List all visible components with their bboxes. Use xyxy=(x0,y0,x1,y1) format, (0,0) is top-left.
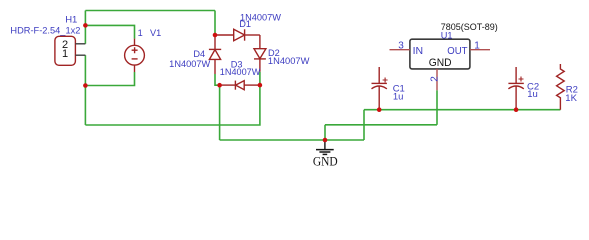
svg-text:HDR-F-2.54_1x2: HDR-F-2.54_1x2 xyxy=(10,25,80,35)
resistor R2 xyxy=(557,64,565,110)
svg-text:1K: 1K xyxy=(565,93,577,104)
V1 pin 1 line xyxy=(134,39,136,46)
C2 top plate xyxy=(508,82,523,84)
svg-text:1N4007W: 1N4007W xyxy=(268,56,310,66)
svg-text:GND: GND xyxy=(429,57,452,69)
wire ground rail riser to C1 rail xyxy=(363,110,365,140)
svg-text:U1: U1 xyxy=(441,30,453,40)
svg-text:D4: D4 xyxy=(193,49,205,59)
junction C1 negative node xyxy=(377,107,382,112)
R2 zigzag body and pins xyxy=(557,64,565,110)
U1 body xyxy=(410,39,470,69)
junction bridge node BR xyxy=(258,83,263,88)
D1 cathode bar xyxy=(244,29,246,40)
D4 anode pin xyxy=(214,59,216,74)
junction C2 negative node xyxy=(514,107,519,112)
wire gnd node to U1 pin 2 xyxy=(325,124,437,126)
D1 anode pin xyxy=(215,34,234,36)
C1 plus mark xyxy=(383,78,388,83)
diode D3 xyxy=(220,81,260,90)
wire D4 anode to bridge node BL xyxy=(215,74,220,85)
junction gnd node xyxy=(323,138,328,143)
D2 triangle xyxy=(254,49,266,59)
ground bar 2 xyxy=(319,151,330,153)
wire top rail drop to bridge node TL xyxy=(214,11,216,36)
ground xyxy=(316,140,334,154)
svg-text:1: 1 xyxy=(138,28,143,38)
D4 triangle xyxy=(209,50,220,60)
junction bridge node TL xyxy=(213,33,218,38)
V1 pin 2 line xyxy=(134,65,136,72)
source V1 xyxy=(125,39,145,72)
D2 cathode pin xyxy=(259,59,261,72)
H1 pin 1 line xyxy=(75,54,85,56)
diode D2 xyxy=(254,35,266,72)
D1 cathode pin to bridge corner TR xyxy=(245,34,260,36)
D3 cathode bar xyxy=(234,81,236,90)
capacitor C1 xyxy=(372,67,388,110)
C2 negative pin xyxy=(515,86,517,109)
D1 triangle xyxy=(234,29,245,40)
C1 positive pin xyxy=(378,67,380,83)
junction node H1 pin2 / V1 top xyxy=(83,23,88,28)
svg-text:1u: 1u xyxy=(393,92,404,103)
C1 top plate xyxy=(372,82,387,84)
wire U1 pin 2 drop xyxy=(436,90,438,125)
svg-text:D1: D1 xyxy=(239,19,251,29)
D4 cathode pin xyxy=(214,35,216,49)
svg-text:1N4007W: 1N4007W xyxy=(220,67,261,77)
U1 pin 1 line (OUT) xyxy=(470,49,490,51)
wire top rail H1/V1 to bridge xyxy=(85,10,215,12)
diode D1 xyxy=(215,29,260,40)
svg-text:H1: H1 xyxy=(65,15,77,26)
ground bar 3 xyxy=(323,153,328,155)
C1 bottom plate arc xyxy=(372,86,387,89)
ground bar 1 xyxy=(316,149,334,151)
svg-text:2: 2 xyxy=(429,76,440,82)
header H1 xyxy=(55,36,86,65)
regulator U1 xyxy=(390,39,491,90)
wire bridge node BL down xyxy=(219,85,221,140)
H1 body xyxy=(55,36,76,65)
D3 cathode pin xyxy=(220,84,236,86)
wire node to V1 top pin xyxy=(85,25,134,38)
diode D4 xyxy=(209,35,221,74)
D3 anode pin xyxy=(244,84,260,86)
svg-text:IN: IN xyxy=(413,45,424,57)
wire left vertical from top rail to H1 pin 2 xyxy=(84,11,86,44)
V1 circle body xyxy=(125,45,145,65)
D3 triangle xyxy=(236,81,245,90)
wire node to V1 bottom pin xyxy=(85,72,134,86)
wire gnd node riser xyxy=(324,125,326,140)
wire ground rail xyxy=(220,139,364,141)
svg-text:1: 1 xyxy=(62,48,68,60)
svg-text:GND: GND xyxy=(313,155,338,169)
junction node H1 pin1 / V1 bottom xyxy=(83,83,88,88)
wire bottom AC rail to bridge node BR xyxy=(85,72,260,125)
U1 pin 3 line (IN) xyxy=(390,49,410,51)
svg-text:V1: V1 xyxy=(150,28,161,38)
C2 plus mark xyxy=(519,77,524,82)
C2 bottom plate arc xyxy=(508,86,523,89)
capacitor C2 xyxy=(508,67,523,110)
wire H1 pin 1 down to bottom AC rail xyxy=(84,55,86,125)
D2 cathode bar xyxy=(254,58,266,60)
H1 pin 2 line xyxy=(75,43,85,45)
svg-text:1N4007W: 1N4007W xyxy=(169,59,210,69)
wire bottom right rail C1-C2-R2 xyxy=(364,109,560,111)
C1 negative pin xyxy=(378,86,380,109)
svg-text:3: 3 xyxy=(398,40,404,51)
svg-text:1u: 1u xyxy=(527,89,538,100)
C2 positive pin xyxy=(515,67,517,83)
D4 cathode bar xyxy=(209,48,221,50)
junction bridge node BL xyxy=(217,83,222,88)
V1 minus mark xyxy=(132,58,138,60)
V1 plus mark xyxy=(132,47,138,53)
svg-text:OUT: OUT xyxy=(447,45,468,57)
svg-text:1: 1 xyxy=(474,41,480,52)
U1 pin 2 line (GND) xyxy=(436,69,438,90)
D2 anode pin from bridge corner TR xyxy=(259,35,261,49)
ground stem xyxy=(324,140,326,149)
